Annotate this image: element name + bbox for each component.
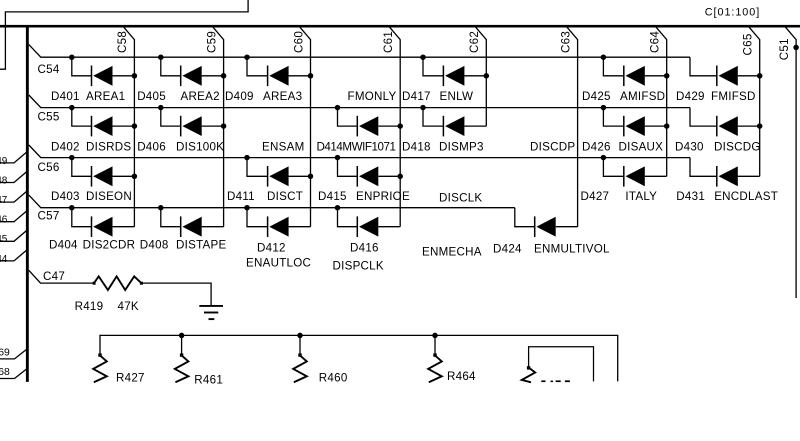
diode D405 anode wiring <box>161 57 181 76</box>
resistor R465 (clipped symbol) <box>522 366 535 382</box>
diode D406 symbol <box>181 116 224 137</box>
junction dot D415 cathode on column C61 <box>397 174 403 180</box>
diode D414 symbol <box>357 116 400 137</box>
junction dot D417 cathode on column C62 <box>484 73 490 79</box>
svg-text:ENLW: ENLW <box>440 90 474 103</box>
svg-text:69: 69 <box>0 348 10 359</box>
svg-text:DISTAPE: DISTAPE <box>176 238 227 251</box>
diode D405 symbol <box>181 66 224 87</box>
wire bottom bus <box>100 335 618 381</box>
svg-text:D415: D415 <box>318 190 347 203</box>
bus C[01:100] thick horizontal <box>0 25 800 28</box>
junction dot D415 anode on row C56 <box>335 155 341 161</box>
svg-text:ITALY: ITALY <box>625 190 657 203</box>
junction dot D403 anode on row C56 <box>69 155 75 161</box>
svg-text:ENCDLAST: ENCDLAST <box>714 190 778 203</box>
svg-text:47K: 47K <box>118 300 139 313</box>
junction dot D402 cathode on column C58 <box>132 123 138 129</box>
svg-text:DISMP3: DISMP3 <box>439 141 484 154</box>
svg-text:R419: R419 <box>75 300 104 313</box>
diode D404 anode wiring <box>72 208 92 227</box>
junction dot D417 anode on row C54 <box>420 54 426 60</box>
wire row C57 <box>29 195 515 208</box>
wire column C58 <box>124 27 135 227</box>
junction dot D409 cathode on column C60 <box>308 73 314 79</box>
diode D411 symbol <box>268 166 311 187</box>
diode D401 anode wiring <box>72 57 92 76</box>
junction dot D414 anode on row C55 <box>335 105 341 111</box>
svg-text:C63: C63 <box>559 31 572 53</box>
bus vertical (left trunk) <box>26 26 29 382</box>
svg-text:D430: D430 <box>675 141 704 154</box>
wire column C63 <box>567 27 578 227</box>
resistor R460 (clipped) <box>293 353 307 382</box>
diode D417 anode wiring <box>423 57 443 76</box>
wire top-left off-page <box>0 0 248 69</box>
wire row C56 <box>29 145 690 158</box>
diode D424 anode wiring <box>515 208 535 227</box>
svg-text:68: 68 <box>0 367 10 378</box>
junction dot R464 <box>432 333 438 339</box>
svg-text:DISCT: DISCT <box>267 190 303 203</box>
diode D418 symbol <box>443 116 486 137</box>
svg-text:D429: D429 <box>676 90 705 103</box>
svg-text:D414MWIF1071: D414MWIF1071 <box>317 141 396 154</box>
diode D402 symbol <box>92 116 135 137</box>
svg-text:AREA2: AREA2 <box>181 90 220 103</box>
junction dot D411 anode on row C56 <box>244 155 250 161</box>
junction dot D404 anode on row C57 <box>69 205 75 211</box>
junction dot D405 cathode on column C59 <box>221 73 227 79</box>
svg-text:49: 49 <box>0 156 8 167</box>
svg-text:C[01:100]: C[01:100] <box>705 6 760 18</box>
svg-text:C62: C62 <box>468 31 481 53</box>
resistor R427 (clipped) <box>93 353 107 382</box>
diode D425 symbol <box>624 66 667 87</box>
diode D414 anode wiring <box>338 108 358 127</box>
diode D402 anode wiring <box>72 108 92 127</box>
diode D408 symbol <box>181 216 224 237</box>
junction dot D409 anode on row C54 <box>244 54 250 60</box>
svg-text:DISCDP: DISCDP <box>530 141 575 154</box>
svg-text:D411: D411 <box>227 190 255 203</box>
svg-text:D406: D406 <box>137 141 166 154</box>
svg-text:D418: D418 <box>402 141 431 154</box>
svg-text:D403: D403 <box>51 190 80 203</box>
diode D415 anode wiring <box>338 158 358 177</box>
diode D412 symbol <box>268 216 311 237</box>
diode D406 anode wiring <box>161 108 181 127</box>
svg-text:C65: C65 <box>742 33 755 55</box>
pin stub wire 46 <box>0 210 28 222</box>
svg-text:D405: D405 <box>137 90 166 103</box>
diode D416 anode wiring <box>338 208 358 227</box>
diode D418 anode wiring <box>423 108 443 127</box>
svg-text:46: 46 <box>0 215 8 226</box>
svg-text:C51: C51 <box>778 38 791 60</box>
svg-text:ENAUTLOC: ENAUTLOC <box>246 257 311 270</box>
svg-text:C59: C59 <box>205 31 218 53</box>
svg-text:DIS100K: DIS100K <box>176 141 224 154</box>
diode D403 anode wiring <box>72 158 92 177</box>
svg-text:D404: D404 <box>49 238 78 251</box>
svg-text:R464: R464 <box>447 370 476 383</box>
pin stub wire 45 <box>0 230 28 242</box>
svg-text:D401: D401 <box>51 90 80 103</box>
svg-text:D408: D408 <box>140 238 169 251</box>
svg-text:AMIFSD: AMIFSD <box>620 90 665 103</box>
wire lead R464 <box>434 335 436 354</box>
diode D409 anode wiring <box>247 57 268 76</box>
wire row C55 <box>29 95 690 108</box>
svg-text:DISAUX: DISAUX <box>619 141 664 154</box>
wire row C54 <box>29 45 690 58</box>
junction dot D426 anode on row C55 <box>601 105 607 111</box>
svg-text:ENMECHA: ENMECHA <box>422 246 482 259</box>
junction dot D402 anode on row C55 <box>69 105 75 111</box>
pin stub wire 69 <box>0 349 28 359</box>
pin stub wire 44 <box>0 249 28 261</box>
junction dot R461 <box>179 333 185 339</box>
svg-text:R460: R460 <box>319 371 348 384</box>
svg-text:D402: D402 <box>51 141 80 154</box>
svg-text:R427: R427 <box>116 371 145 384</box>
svg-text:AREA1: AREA1 <box>86 90 125 103</box>
junction dot D401 cathode on column C58 <box>132 73 138 79</box>
junction dot D429 cathode on column C65 <box>757 73 763 79</box>
svg-text:D409: D409 <box>225 90 254 103</box>
diode D429 symbol <box>717 66 760 87</box>
diode D431 symbol <box>717 166 760 187</box>
svg-text:D426: D426 <box>582 141 611 154</box>
diode D408 anode wiring <box>161 208 181 227</box>
diode D415 symbol <box>357 166 400 187</box>
svg-text:C56: C56 <box>38 161 60 174</box>
pin stub wire 49 <box>0 151 28 163</box>
wire R419 to ground <box>141 283 211 306</box>
junction dot D425 cathode on column C64 <box>664 73 670 79</box>
junction dot D408 anode on row C57 <box>158 205 164 211</box>
diode D401 symbol <box>92 66 135 87</box>
diode D417 symbol <box>443 66 486 87</box>
wire lead R460 <box>299 335 301 354</box>
resistor R465 (clipped) wiring <box>529 347 594 382</box>
junction dot D406 cathode on column C59 <box>221 123 227 129</box>
diode D429 anode wiring <box>690 57 717 76</box>
diode D403 symbol <box>92 166 135 187</box>
diode D430 anode wiring <box>690 108 717 127</box>
junction dot on C51 <box>793 45 799 51</box>
wire column C65 <box>749 27 760 176</box>
svg-text:C58: C58 <box>116 31 129 53</box>
diode D430 symbol <box>717 116 760 137</box>
svg-text:D427: D427 <box>581 190 610 203</box>
svg-text:45: 45 <box>0 234 8 245</box>
junction dot D406 anode on row C55 <box>158 105 164 111</box>
svg-text:D417: D417 <box>402 90 431 103</box>
wire column C62 <box>476 27 487 126</box>
wire column C61 <box>390 27 401 227</box>
svg-text:DISCLK: DISCLK <box>439 192 482 205</box>
svg-text:DISPCLK: DISPCLK <box>333 260 384 273</box>
junction dot D418 anode on row C55 <box>420 105 426 111</box>
wire column C51 <box>786 27 797 298</box>
svg-text:D412: D412 <box>257 242 286 255</box>
diode D426 symbol <box>624 116 667 137</box>
svg-text:C60: C60 <box>292 31 305 53</box>
diode D427 anode wiring <box>603 158 623 177</box>
diode D404 symbol <box>92 216 135 237</box>
resistor R419 <box>93 276 143 290</box>
junction dot D414 cathode on column C61 <box>397 123 403 129</box>
svg-text:C54: C54 <box>38 63 60 76</box>
diode D409 symbol <box>268 66 311 87</box>
svg-text:DISRDS: DISRDS <box>86 141 131 154</box>
svg-text:R461: R461 <box>194 373 223 386</box>
diode D424 symbol <box>535 216 578 237</box>
junction dot R460 <box>297 333 303 339</box>
svg-text:C55: C55 <box>38 111 60 124</box>
junction dot D411 cathode on column C60 <box>308 174 314 180</box>
ground symbol <box>199 306 223 319</box>
svg-text:C57: C57 <box>38 209 60 222</box>
junction dot D405 anode on row C54 <box>158 54 164 60</box>
wire net C47 to R419 <box>29 270 94 283</box>
diode D431 anode wiring <box>690 158 717 177</box>
svg-text:C61: C61 <box>382 31 395 53</box>
svg-text:ENPRIOE: ENPRIOE <box>356 190 410 203</box>
diode D427 symbol <box>624 166 667 187</box>
svg-text:DISEON: DISEON <box>86 190 132 203</box>
svg-text:ENMULTIVOL: ENMULTIVOL <box>534 243 610 256</box>
junction dot D416 anode on row C57 <box>335 205 341 211</box>
diode D411 anode wiring <box>247 158 268 177</box>
svg-text:C64: C64 <box>649 31 662 53</box>
svg-text:AREA3: AREA3 <box>263 90 302 103</box>
svg-text:47: 47 <box>0 195 8 206</box>
svg-text:48: 48 <box>0 175 8 186</box>
svg-text:D425: D425 <box>582 90 611 103</box>
svg-text:FMONLY: FMONLY <box>348 90 397 103</box>
label R465 (clipped glyph tops) <box>541 380 570 382</box>
wire column C59 <box>213 27 224 227</box>
resistor R464 (clipped) <box>428 353 442 382</box>
svg-text:D416: D416 <box>350 242 379 255</box>
pin stub wire 48 <box>0 171 28 183</box>
junction dot D403 cathode on column C58 <box>132 174 138 180</box>
svg-text:DIS2CDR: DIS2CDR <box>83 238 136 251</box>
svg-text:44: 44 <box>0 254 8 265</box>
svg-text:DISCDG: DISCDG <box>714 141 761 154</box>
diode D425 anode wiring <box>603 57 623 76</box>
wire column C64 <box>656 27 667 176</box>
pin stub wire 47 <box>0 191 28 203</box>
svg-text:ENSAM: ENSAM <box>262 141 304 154</box>
junction dot D427 anode on row C56 <box>601 155 607 161</box>
junction dot D425 anode on row C54 <box>601 54 607 60</box>
junction dot D426 cathode on column C64 <box>664 123 670 129</box>
diode D416 symbol <box>357 216 400 237</box>
svg-text:C47: C47 <box>43 270 65 283</box>
svg-text:D424: D424 <box>493 243 522 256</box>
junction dot D401 anode on row C54 <box>69 54 75 60</box>
diode D412 anode wiring <box>247 208 268 227</box>
diode D426 anode wiring <box>603 108 623 127</box>
junction dot D430 cathode on column C65 <box>757 123 763 129</box>
junction dot D412 anode on row C57 <box>244 205 250 211</box>
wire column C60 <box>300 27 311 227</box>
svg-text:D431: D431 <box>676 190 705 203</box>
pin stub wire 68 <box>0 368 28 378</box>
wire lead R461 <box>181 335 183 354</box>
resistor R461 (clipped) <box>175 353 189 382</box>
svg-text:FMIFSD: FMIFSD <box>711 90 756 103</box>
